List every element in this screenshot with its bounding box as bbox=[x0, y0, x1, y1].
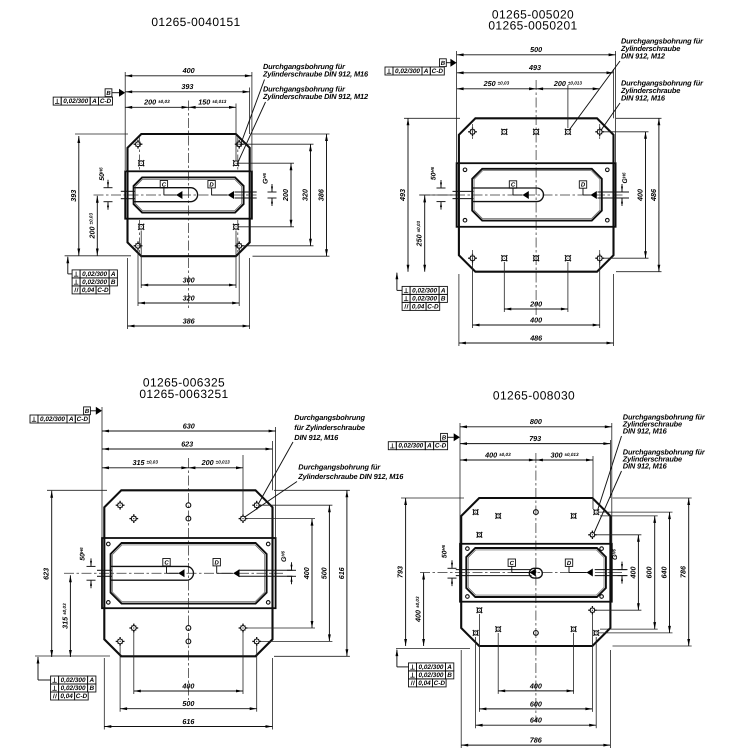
datum target C bbox=[508, 559, 536, 577]
dimension 793 dim bbox=[460, 443, 610, 445]
svg-text:01265-0063251: 01265-0063251 bbox=[139, 387, 228, 401]
svg-text:400: 400 bbox=[529, 315, 542, 324]
svg-text:C-D: C-D bbox=[435, 443, 447, 450]
dimension 400 dim bbox=[473, 324, 600, 326]
svg-text:B: B bbox=[85, 408, 90, 415]
dimension 300 dim bbox=[141, 284, 236, 286]
dimension GH6 bbox=[280, 550, 296, 584]
horizontal centerline bbox=[94, 194, 257, 196]
svg-text:C-D: C-D bbox=[77, 416, 89, 423]
dimension GH6 bbox=[618, 172, 630, 206]
dimension 400 dim bbox=[134, 690, 243, 692]
feature control frame bbox=[72, 278, 117, 286]
inner pocket outline bbox=[466, 548, 606, 597]
svg-text:DIN 912, M16: DIN 912, M16 bbox=[623, 427, 668, 436]
svg-text:A: A bbox=[88, 677, 94, 684]
small hole at 602,549 bbox=[600, 547, 604, 551]
hole M12 at 568,132 bbox=[565, 129, 571, 135]
small hole at 108,544 bbox=[107, 542, 111, 546]
svg-text:0,04: 0,04 bbox=[60, 693, 73, 700]
svg-text:793: 793 bbox=[529, 434, 541, 443]
datum B flag bbox=[84, 407, 102, 415]
hole M12 at 568,258 bbox=[565, 255, 571, 261]
dimension 400 dim bbox=[311, 519, 313, 628]
dimension 50H6 bbox=[430, 166, 446, 209]
hole M16 at 120,641 bbox=[116, 637, 125, 646]
svg-text:640: 640 bbox=[660, 567, 669, 579]
svg-text:616: 616 bbox=[337, 566, 346, 579]
dimension 200 dim bbox=[290, 163, 292, 227]
horizontal centerline bbox=[64, 572, 283, 574]
svg-text:0,02/300: 0,02/300 bbox=[63, 98, 88, 105]
hole M12 at 479,535 bbox=[477, 532, 483, 538]
right pin slot bbox=[595, 569, 628, 571]
dimension 400 dim bbox=[498, 690, 573, 692]
dimension 786 dim bbox=[461, 744, 610, 746]
svg-text:400: 400 bbox=[529, 681, 542, 690]
svg-text:A: A bbox=[426, 443, 432, 450]
extension lines bbox=[456, 51, 458, 163]
svg-text:A: A bbox=[68, 416, 74, 423]
datum target D bbox=[565, 559, 593, 577]
small hole at 268,544 bbox=[266, 542, 270, 546]
extension lines bbox=[101, 407, 103, 538]
central keyway slot bbox=[529, 568, 542, 578]
dimension GH6 bbox=[611, 548, 626, 583]
hole M16 at 257,505 bbox=[252, 501, 261, 510]
feature control frame bbox=[72, 286, 110, 294]
hole M16 at 600,258 bbox=[595, 254, 604, 263]
svg-text:C: C bbox=[164, 559, 169, 566]
svg-text:DIN 912, M16: DIN 912, M16 bbox=[294, 433, 339, 442]
vertical centerline bbox=[188, 101, 190, 311]
central keyway slot bbox=[110, 566, 193, 580]
leader note M16 a bbox=[258, 413, 365, 504]
vertical centerline bbox=[535, 80, 537, 315]
svg-text:0,02/300: 0,02/300 bbox=[419, 664, 444, 671]
svg-text:0,02/300: 0,02/300 bbox=[398, 443, 423, 450]
hole M16 at 472,258 bbox=[468, 254, 477, 263]
hole M16 at 134,519 bbox=[129, 514, 138, 523]
svg-text:200: 200 bbox=[281, 189, 290, 202]
svg-text:B: B bbox=[447, 672, 452, 679]
clamping band outline bbox=[125, 171, 252, 218]
dimension 400 dim bbox=[423, 573, 425, 647]
vertical centerline bbox=[187, 458, 189, 700]
svg-text:A: A bbox=[423, 68, 429, 75]
svg-text:793: 793 bbox=[396, 566, 405, 578]
left tenon stub bbox=[453, 190, 474, 192]
dimension 640 dim bbox=[476, 724, 597, 726]
svg-text:Zylinderschraube DIN 912, M16: Zylinderschraube DIN 912, M16 bbox=[262, 70, 369, 79]
datum B flag bbox=[441, 433, 460, 441]
small hole at 268,602 bbox=[266, 601, 270, 605]
dimension 500 dim bbox=[328, 505, 330, 641]
svg-text:C-D: C-D bbox=[76, 693, 88, 700]
dimension 315 dim bbox=[102, 467, 188, 469]
dimension 600 dim bbox=[654, 516, 656, 629]
svg-text:für Zylinderschraube: für Zylinderschraube bbox=[294, 423, 365, 432]
left tenon stub bbox=[121, 190, 135, 192]
svg-text:D: D bbox=[215, 559, 220, 566]
clamping band outline bbox=[102, 538, 276, 608]
svg-text:01265-008030: 01265-008030 bbox=[493, 389, 575, 403]
dimension 623 dim bbox=[102, 448, 273, 450]
central keyway slot bbox=[472, 188, 544, 202]
small hole at 467,596 bbox=[466, 595, 470, 599]
hole M16 at 243,628 bbox=[239, 624, 248, 633]
svg-text:C-D: C-D bbox=[434, 680, 446, 687]
hole M16 at 239,144 bbox=[235, 140, 244, 149]
dimension 200 dim bbox=[96, 196, 98, 256]
feature control frame bbox=[51, 684, 96, 692]
hole M12 at 236,163 bbox=[233, 160, 239, 166]
feature control frame bbox=[409, 679, 447, 687]
dimension 500 dim bbox=[457, 54, 616, 56]
svg-text:A: A bbox=[91, 98, 97, 105]
dimension 630 dim bbox=[102, 430, 276, 432]
svg-text:0,02/300: 0,02/300 bbox=[82, 279, 107, 286]
svg-text:0,02/300: 0,02/300 bbox=[412, 287, 437, 294]
leader note M12 bbox=[237, 85, 369, 165]
hole at 188,641 bbox=[186, 639, 191, 644]
vertical centerline bbox=[535, 453, 537, 722]
leader note M16 b bbox=[245, 462, 405, 517]
hole M12 at 574,516 bbox=[571, 513, 577, 519]
svg-text:623: 623 bbox=[42, 568, 51, 580]
svg-text:DIN 912, M16: DIN 912, M16 bbox=[621, 94, 666, 103]
dimension 793 dim bbox=[405, 498, 407, 646]
central keyway slot bbox=[133, 188, 197, 202]
dimension 200 dim bbox=[536, 88, 600, 90]
datum/tolerance frame stack leader bbox=[37, 657, 39, 680]
right pin slot bbox=[235, 191, 257, 193]
svg-text:486: 486 bbox=[649, 188, 658, 202]
datum target C bbox=[509, 181, 529, 199]
svg-text:200: 200 bbox=[529, 299, 542, 308]
svg-text:600: 600 bbox=[530, 699, 542, 708]
leader note M16 a bbox=[598, 413, 706, 511]
svg-text:01265-0050201: 01265-0050201 bbox=[488, 19, 577, 33]
dimension 493 dim bbox=[457, 72, 614, 74]
svg-text:486: 486 bbox=[529, 333, 543, 342]
datum/tolerance frame stack leader bbox=[396, 650, 398, 667]
leader note M12 bbox=[569, 37, 704, 131]
left tenon stub bbox=[456, 569, 532, 571]
dimension 800 dim bbox=[460, 426, 612, 428]
hole M12 at 236,227 bbox=[233, 224, 239, 230]
svg-text:A: A bbox=[446, 664, 452, 671]
hole at 188,519 bbox=[186, 516, 191, 521]
svg-text:C: C bbox=[511, 182, 516, 189]
dimension 320 dim bbox=[310, 144, 312, 246]
feature control frame bbox=[53, 97, 112, 105]
small hole at 108,602 bbox=[107, 601, 111, 605]
small hole at 465,220 bbox=[463, 218, 467, 222]
hole M12 at 141,227 bbox=[138, 224, 144, 230]
datum target D bbox=[213, 559, 240, 578]
svg-text:400: 400 bbox=[181, 681, 194, 690]
svg-text:01265-0040151: 01265-0040151 bbox=[151, 15, 240, 29]
hole M16 at 592,610 bbox=[588, 606, 596, 614]
datum B flag bbox=[440, 59, 457, 67]
svg-text:DIN 912, M16: DIN 912, M16 bbox=[623, 462, 668, 471]
svg-text:640: 640 bbox=[530, 716, 542, 725]
right pin slot bbox=[598, 191, 630, 193]
dimension 493 dim bbox=[407, 118, 409, 271]
svg-text:D: D bbox=[567, 560, 572, 567]
svg-text:C: C bbox=[162, 181, 167, 188]
inner pocket outline bbox=[111, 543, 267, 604]
svg-text:A: A bbox=[110, 271, 116, 278]
dimension 600 dim bbox=[479, 708, 592, 710]
svg-text:400: 400 bbox=[636, 189, 645, 202]
dimension 50H6 bbox=[79, 547, 96, 588]
dimension 50H6 bbox=[441, 544, 457, 586]
feature control frame bbox=[72, 270, 117, 278]
dimension 200 dim bbox=[125, 106, 188, 108]
dimension 616 dim bbox=[104, 726, 272, 728]
svg-text:B: B bbox=[89, 685, 94, 692]
leader note M16 b bbox=[594, 447, 706, 533]
plate outline octagon bbox=[461, 498, 610, 646]
svg-text:C-D: C-D bbox=[97, 287, 109, 294]
svg-text:300: 300 bbox=[183, 275, 195, 284]
datum target C bbox=[163, 559, 185, 578]
hole M12 at 504,132 bbox=[501, 129, 507, 135]
hole M16 at 138,144 bbox=[134, 140, 143, 149]
datum target D bbox=[208, 181, 234, 200]
dimension 486 dim bbox=[459, 342, 614, 344]
svg-text:Durchgangsbohrung: Durchgangsbohrung bbox=[294, 413, 365, 422]
dimension 500 dim bbox=[120, 708, 257, 710]
small hole at 602,596 bbox=[600, 595, 604, 599]
svg-text:Durchgangsbohrung für: Durchgangsbohrung für bbox=[298, 462, 381, 471]
hole M12 at 504,258 bbox=[501, 255, 507, 261]
svg-text:DIN 912, M12: DIN 912, M12 bbox=[621, 52, 666, 61]
hole M16 at 600,132 bbox=[595, 127, 604, 136]
dimension 386 dim bbox=[128, 325, 250, 327]
hole M12 at 498,516 bbox=[495, 513, 501, 519]
svg-text:386: 386 bbox=[183, 316, 196, 325]
svg-text:630: 630 bbox=[183, 421, 195, 430]
svg-text:0,02/300: 0,02/300 bbox=[395, 68, 420, 75]
svg-text:C-D: C-D bbox=[432, 68, 444, 75]
dimension 400 dim bbox=[125, 75, 252, 77]
leader note M16 bbox=[601, 79, 704, 131]
right pin slot bbox=[239, 569, 293, 571]
datum target C bbox=[160, 181, 182, 200]
svg-text:C-D: C-D bbox=[100, 98, 112, 105]
svg-text:493: 493 bbox=[528, 63, 541, 72]
svg-text:616: 616 bbox=[182, 717, 195, 726]
dimension 300 dim bbox=[536, 459, 593, 461]
hole M12 at 596,512 bbox=[593, 509, 599, 515]
feature control frame bbox=[385, 67, 444, 75]
hole M12 at 479,610 bbox=[477, 607, 483, 613]
svg-text:B: B bbox=[442, 435, 447, 442]
dimension 315 dim bbox=[69, 575, 71, 657]
plate outline octagon bbox=[459, 118, 614, 271]
dimension 393 dim bbox=[125, 91, 249, 93]
dimension 320 dim bbox=[138, 302, 239, 304]
feature control frame bbox=[402, 286, 447, 294]
dimension 200 dim bbox=[188, 467, 243, 469]
svg-text:400: 400 bbox=[628, 567, 637, 580]
svg-text:500: 500 bbox=[530, 45, 542, 54]
feature control frame bbox=[402, 302, 440, 310]
datum B flag bbox=[105, 89, 125, 97]
leader note M16 bbox=[240, 62, 369, 146]
hole M12 at 536,258 bbox=[533, 255, 539, 261]
extension lines bbox=[124, 72, 126, 170]
hole at 188,628 bbox=[186, 626, 191, 631]
svg-text:B: B bbox=[106, 90, 111, 97]
dimension 150 dim bbox=[189, 106, 236, 108]
hole M16 at 592,535 bbox=[588, 531, 596, 539]
horizontal centerline bbox=[420, 194, 625, 196]
datum target D bbox=[579, 181, 597, 199]
hole M16 at 239,246 bbox=[235, 241, 244, 250]
feature control frame bbox=[30, 415, 89, 423]
svg-text:D: D bbox=[209, 181, 214, 188]
hole M16 at 243,519 bbox=[239, 514, 248, 523]
left tenon stub bbox=[97, 569, 112, 571]
feature control frame bbox=[51, 692, 89, 700]
hole at 536,512 bbox=[534, 510, 539, 515]
dimension 400 dim bbox=[637, 535, 639, 610]
dimension 623 dim bbox=[51, 491, 53, 657]
extension lines bbox=[459, 423, 461, 544]
svg-text:320: 320 bbox=[301, 189, 310, 201]
svg-text:393: 393 bbox=[69, 190, 78, 202]
hole M16 at 472,132 bbox=[468, 127, 477, 136]
hole M12 at 574,629 bbox=[571, 626, 577, 632]
dimension 616 dim bbox=[346, 490, 348, 656]
inner pocket outline bbox=[134, 177, 244, 212]
svg-text:400: 400 bbox=[302, 567, 311, 580]
svg-text:D: D bbox=[581, 182, 586, 189]
svg-text:B: B bbox=[441, 295, 446, 302]
svg-text:0,04: 0,04 bbox=[412, 303, 425, 310]
hole M12 at 476,512 bbox=[473, 509, 479, 515]
svg-text:386: 386 bbox=[317, 188, 326, 201]
svg-text:500: 500 bbox=[319, 567, 328, 579]
hole M12 at 141,163 bbox=[138, 160, 144, 166]
svg-text:0,02/300: 0,02/300 bbox=[40, 416, 65, 423]
feature control frame bbox=[51, 676, 96, 684]
datum/tolerance frame stack leader bbox=[67, 257, 69, 274]
feature control frame bbox=[409, 671, 454, 679]
hole M12 at 498,629 bbox=[495, 626, 501, 632]
dimension 250 dim bbox=[424, 195, 426, 271]
dimension 50H6 bbox=[98, 167, 112, 210]
clamping band outline bbox=[460, 544, 612, 602]
plate outline octagon bbox=[128, 134, 250, 256]
clamping band outline bbox=[457, 163, 616, 227]
feature control frame bbox=[409, 663, 454, 671]
hole at 536,633 bbox=[534, 631, 539, 636]
dimension 393 dim bbox=[78, 136, 80, 256]
small hole at 467,549 bbox=[466, 547, 470, 551]
small hole at 465,170 bbox=[463, 168, 467, 172]
horizontal centerline bbox=[420, 572, 622, 574]
svg-text:393: 393 bbox=[181, 82, 193, 91]
svg-text:0,02/300: 0,02/300 bbox=[82, 271, 107, 278]
svg-text:500: 500 bbox=[182, 699, 194, 708]
dimension 400 dim bbox=[460, 459, 536, 461]
dimension 386 dim bbox=[326, 134, 328, 256]
svg-text:B: B bbox=[441, 60, 446, 67]
svg-text:623: 623 bbox=[181, 439, 193, 448]
dimension 640 dim bbox=[669, 512, 671, 633]
svg-text:786: 786 bbox=[530, 736, 543, 745]
feature control frame bbox=[388, 442, 447, 450]
dimension 486 dim bbox=[658, 118, 660, 271]
dimension 786 dim bbox=[688, 498, 690, 646]
datum/tolerance frame stack leader bbox=[396, 273, 398, 291]
dimension 200 dim bbox=[504, 308, 568, 310]
hole M12 at 596,633 bbox=[593, 630, 599, 636]
hole M16 at 257,641 bbox=[252, 637, 261, 646]
svg-text:0,02/300: 0,02/300 bbox=[61, 677, 86, 684]
svg-text:600: 600 bbox=[645, 567, 654, 579]
svg-text:0,02/300: 0,02/300 bbox=[419, 672, 444, 679]
svg-text:0,02/300: 0,02/300 bbox=[61, 685, 86, 692]
hole M12 at 476,633 bbox=[473, 630, 479, 636]
small hole at 607,220 bbox=[606, 218, 610, 222]
svg-text:0,04: 0,04 bbox=[82, 287, 95, 294]
svg-text:800: 800 bbox=[530, 417, 542, 426]
svg-text:Zylinderschraube DIN 912, M16: Zylinderschraube DIN 912, M16 bbox=[297, 472, 404, 481]
hole M12 at 536,132 bbox=[533, 129, 539, 135]
small hole at 607,170 bbox=[606, 168, 610, 172]
svg-text:Zylinderschraube DIN 912, M12: Zylinderschraube DIN 912, M12 bbox=[262, 92, 369, 101]
svg-text:0,04: 0,04 bbox=[418, 680, 431, 687]
hole M16 at 134,628 bbox=[129, 624, 138, 633]
svg-text:400: 400 bbox=[182, 66, 195, 75]
dimension GH6 bbox=[262, 172, 277, 206]
inner pocket outline bbox=[472, 169, 602, 221]
svg-text:A: A bbox=[440, 287, 446, 294]
dimension 250 dim bbox=[457, 88, 536, 90]
svg-text:320: 320 bbox=[183, 293, 195, 302]
hole M16 at 138,246 bbox=[134, 241, 143, 250]
svg-text:B: B bbox=[111, 279, 116, 286]
hole at 188,505 bbox=[186, 503, 191, 508]
hole M16 at 120,505 bbox=[116, 501, 125, 510]
svg-text:0,02/300: 0,02/300 bbox=[412, 295, 437, 302]
svg-text:C: C bbox=[510, 560, 515, 567]
plate outline octagon bbox=[104, 490, 272, 656]
svg-text:493: 493 bbox=[398, 189, 407, 202]
svg-text:786: 786 bbox=[679, 565, 688, 578]
dimension 400 dim bbox=[645, 132, 647, 258]
svg-text:C-D: C-D bbox=[427, 303, 439, 310]
feature control frame bbox=[402, 294, 447, 302]
